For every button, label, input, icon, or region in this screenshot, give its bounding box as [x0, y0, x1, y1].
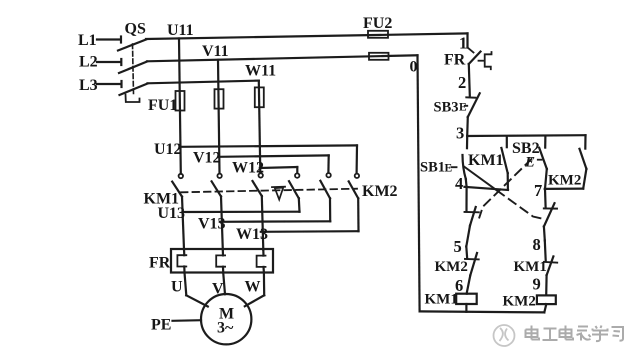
svg-text:V12: V12	[193, 150, 221, 167]
svg-text:E: E	[459, 102, 467, 114]
svg-text:KM2: KM2	[548, 173, 581, 189]
svg-text:3: 3	[456, 124, 464, 143]
svg-text:L1: L1	[78, 32, 97, 49]
svg-text:V13: V13	[198, 216, 226, 233]
svg-text:FU2: FU2	[363, 15, 392, 32]
svg-text:KM2: KM2	[435, 259, 468, 275]
svg-text:3~: 3~	[217, 320, 234, 337]
svg-text:8: 8	[533, 235, 541, 254]
svg-text:9: 9	[533, 275, 541, 294]
svg-text:U13: U13	[158, 205, 186, 222]
svg-text:FU1: FU1	[148, 97, 177, 114]
svg-text:E: E	[445, 163, 453, 175]
svg-text:L3: L3	[79, 77, 98, 94]
svg-text:U12: U12	[154, 141, 182, 158]
svg-text:FR: FR	[444, 52, 466, 69]
svg-text:QS: QS	[125, 21, 146, 38]
svg-text:L2: L2	[79, 54, 98, 71]
svg-text:1: 1	[459, 34, 467, 53]
svg-text:W12: W12	[232, 160, 264, 177]
svg-text:7: 7	[534, 181, 542, 200]
svg-text:KM1: KM1	[468, 152, 504, 169]
svg-text:FR: FR	[149, 255, 171, 272]
svg-text:KM2: KM2	[362, 183, 398, 200]
svg-text:E: E	[524, 155, 535, 171]
svg-text:W11: W11	[245, 63, 276, 80]
svg-text:W13: W13	[236, 226, 268, 243]
svg-text:KM1: KM1	[514, 259, 547, 275]
svg-text:2: 2	[458, 73, 466, 92]
svg-text:5: 5	[454, 237, 462, 256]
svg-text:PE: PE	[151, 317, 171, 334]
svg-text:U11: U11	[167, 22, 194, 39]
svg-text:V: V	[212, 281, 224, 298]
svg-text:6: 6	[455, 276, 463, 295]
svg-text:4: 4	[455, 174, 463, 193]
svg-text:SB1: SB1	[420, 160, 445, 176]
svg-text:SB3: SB3	[434, 100, 459, 116]
svg-text:KM1: KM1	[425, 292, 458, 308]
svg-text:U: U	[171, 279, 183, 296]
svg-text:W: W	[245, 279, 261, 296]
svg-text:0: 0	[410, 59, 418, 76]
svg-text:KM2: KM2	[503, 294, 536, 310]
svg-text:V11: V11	[202, 43, 229, 60]
